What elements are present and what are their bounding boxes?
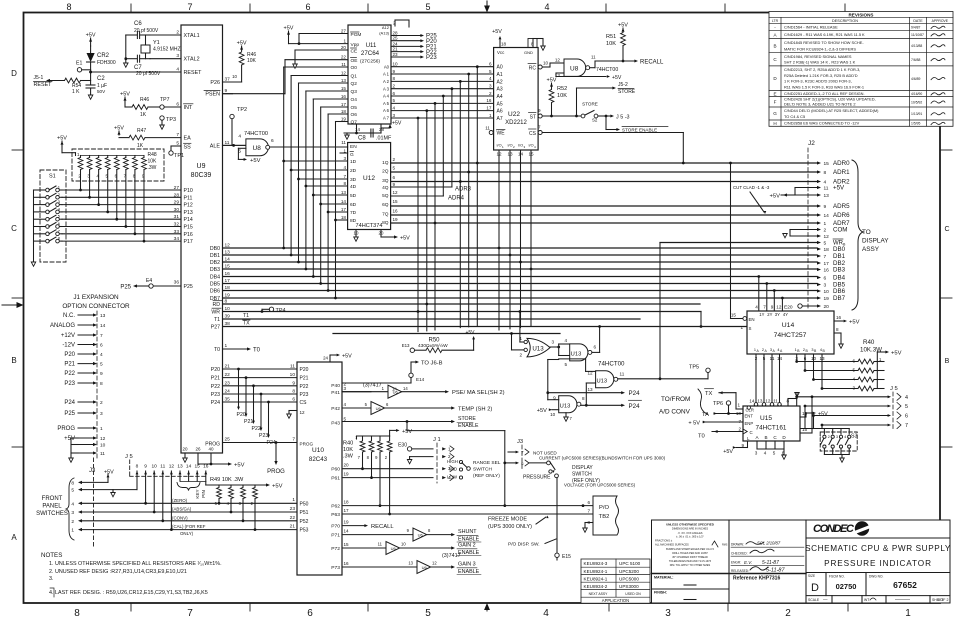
svg-text:ADR0: ADR0: [833, 160, 850, 167]
svg-text:DB3: DB3: [210, 267, 220, 273]
U9 pin T0: [223, 348, 248, 350]
svg-text:U14: U14: [782, 322, 795, 329]
svg-text:A0: A0: [497, 65, 503, 71]
svg-text:7: 7: [538, 125, 541, 130]
svg-text:2: 2: [828, 435, 830, 439]
svg-text:P26: P26: [210, 80, 220, 86]
wire pressure to E15: [556, 478, 558, 553]
svg-text:.3W: .3W: [148, 165, 157, 171]
svg-text:1: 1: [58, 185, 61, 190]
svg-text:10K: 10K: [148, 159, 158, 165]
svg-text:C2: C2: [97, 76, 105, 82]
svg-text:D: D: [11, 69, 17, 78]
S3 common to ground: [823, 448, 825, 454]
svg-text:TP7: TP7: [160, 97, 170, 103]
svg-text:7: 7: [905, 423, 908, 429]
svg-text:DISPLAY: DISPLAY: [572, 465, 593, 471]
svg-text:———: ———: [895, 597, 910, 603]
svg-text:+5V: +5V: [342, 354, 352, 360]
svg-text:A7: A7: [497, 116, 503, 122]
svg-text:PROG: PROG: [300, 442, 314, 447]
U14 B input verticals to R40 and S3: [796, 361, 798, 364]
svg-text:CS: CS: [300, 400, 308, 406]
svg-text:T0: T0: [253, 348, 261, 354]
U9 port1 pins P10-P17: [62, 189, 181, 191]
svg-text:14: 14: [518, 152, 524, 157]
svg-text:3: 3: [824, 283, 827, 289]
svg-text:4/16/90: 4/16/90: [911, 92, 922, 96]
svg-text:12: 12: [496, 152, 502, 157]
svg-text:J2: J2: [808, 140, 815, 147]
svg-text:16: 16: [344, 561, 350, 566]
svg-text:14: 14: [824, 213, 830, 219]
svg-text:P10: P10: [184, 188, 193, 194]
svg-text:N.C.: N.C.: [63, 313, 75, 319]
svg-text:Q1: Q1: [351, 74, 358, 80]
svg-text:Reference KHP7316: Reference KHP7316: [733, 576, 780, 582]
address wires U11 to U22: [391, 66, 494, 68]
svg-text:P23: P23: [64, 381, 75, 387]
ground below C2: [88, 95, 93, 99]
svg-text:2: 2: [393, 157, 396, 162]
svg-text:DATE: DATE: [913, 19, 923, 23]
svg-text:E4: E4: [146, 278, 152, 284]
svg-text:C: C: [944, 226, 949, 233]
svg-text:KEU8924-3: KEU8924-3: [584, 561, 608, 566]
svg-text:1Y: 1Y: [759, 312, 764, 317]
svg-text:9: 9: [538, 108, 541, 113]
svg-text:2: 2: [738, 426, 741, 431]
svg-text:DIM. TOL APPLY TO OTHER SIZES: DIM. TOL APPLY TO OTHER SIZES: [670, 564, 711, 567]
svg-text:T0: T0: [214, 347, 220, 353]
svg-text:ALL MACHINED SURFACES: ALL MACHINED SURFACES: [655, 543, 689, 547]
svg-text:C6: C6: [134, 21, 142, 27]
svg-text:3: 3: [836, 435, 838, 439]
svg-text:P21: P21: [300, 376, 309, 382]
svg-text:A 1: A 1: [383, 72, 390, 77]
svg-text:G: G: [773, 111, 777, 116]
svg-text:C/ND1629 - R11 WAS 6.19K, R21: C/ND1629 - R11 WAS 6.19K, R21 WAS 11.5 K: [784, 32, 865, 37]
U13c input 12 wire: [586, 370, 596, 372]
svg-text:RD: RD: [213, 302, 221, 308]
svg-text:6: 6: [852, 359, 855, 364]
svg-text:+5V: +5V: [250, 158, 261, 164]
svg-text:WR: WR: [211, 310, 220, 316]
svg-text:8: 8: [58, 236, 61, 241]
svg-text:J3: J3: [517, 439, 523, 445]
U8a output to U12 EN clock: [270, 146, 348, 148]
svg-text:ANALOG: ANALOG: [50, 323, 75, 329]
PROG arrow: [275, 443, 277, 462]
U15 pin 15 wire: [800, 432, 812, 434]
J5-1 RESET label: [46, 79, 50, 82]
svg-text:4/13/88: 4/13/88: [911, 44, 922, 48]
svg-text:E30: E30: [398, 443, 407, 449]
microcontroller U9 80C39: [181, 25, 223, 453]
svg-text:MID: MID: [449, 467, 457, 472]
svg-text:TP2: TP2: [237, 107, 247, 113]
svg-text:P12: P12: [184, 203, 193, 209]
svg-text:F: F: [774, 99, 777, 104]
zone ticks top: [130, 4, 132, 13]
svg-text:27: 27: [341, 29, 347, 34]
svg-text:J 5: J 5: [125, 454, 133, 460]
svg-text:ADR1: ADR1: [833, 169, 850, 176]
svg-text:11: 11: [100, 451, 105, 457]
address bus ADR0-ADR2 wires: [391, 162, 817, 164]
svg-text:PROG: PROG: [57, 426, 75, 432]
svg-text:XTAL1: XTAL1: [184, 33, 200, 39]
svg-text:1 K: 1 K: [72, 89, 80, 95]
address bus verticals to lower logic: [476, 67, 478, 326]
svg-text:BURRS AND SHARP EDGES PER UG.0: BURRS AND SHARP EDGES PER UG.0.5: [666, 548, 714, 551]
svg-text:APPLICATION: APPLICATION: [602, 598, 629, 603]
svg-text:XD2212: XD2212: [505, 120, 527, 126]
svg-text:15: 15: [528, 152, 534, 157]
svg-text:RC: RC: [529, 66, 537, 72]
svg-text:74HCT00: 74HCT00: [596, 67, 618, 73]
wire WR with jog to U15 S: [223, 311, 702, 313]
svg-text:DESCRIPTION: DESCRIPTION: [832, 19, 858, 23]
svg-text:+5V: +5V: [891, 351, 902, 357]
svg-text:12: 12: [555, 58, 561, 63]
svg-text:5: 5: [489, 69, 492, 74]
svg-text:18: 18: [225, 285, 231, 291]
svg-text:3.: 3.: [49, 576, 54, 582]
U14 EN pin: [731, 318, 744, 320]
svg-text:P52: P52: [300, 519, 309, 525]
svg-text:P/O: P/O: [599, 505, 609, 511]
svg-text:8: 8: [225, 299, 228, 305]
U14 gnd pin 8: [834, 332, 841, 334]
svg-text:S2: S2: [592, 118, 598, 123]
svg-text:CONDEC: CONDEC: [813, 523, 855, 535]
capacitor C2 1uF 50V: [86, 84, 95, 86]
svg-text:P14: P14: [184, 217, 193, 223]
svg-text:TX: TX: [243, 321, 250, 327]
svg-text:+5V: +5V: [618, 23, 628, 29]
svg-text:C/ND1564 - INITIAL RELEASE: C/ND1564 - INITIAL RELEASE: [784, 25, 838, 30]
svg-text:9: 9: [393, 69, 396, 74]
svg-text:4D: 4D: [350, 184, 357, 190]
svg-text:4: 4: [764, 451, 767, 456]
svg-text:PGM: PGM: [351, 32, 362, 38]
svg-text:+5V: +5V: [392, 121, 402, 127]
svg-text:35: 35: [225, 397, 231, 403]
svg-text:+ 5V: + 5V: [688, 421, 700, 427]
svg-text:TO C4 & C5: TO C4 & C5: [784, 114, 805, 119]
svg-text:16: 16: [486, 98, 492, 103]
svg-text:3: 3: [344, 386, 347, 391]
svg-text:+5V: +5V: [400, 236, 410, 242]
svg-text:1: 1: [519, 336, 522, 341]
svg-text:25: 25: [225, 437, 231, 443]
svg-text:8: 8: [393, 76, 396, 81]
wire PSEN to U11 OE: [223, 93, 286, 95]
U13c input 13 from P24bar: [586, 382, 595, 384]
svg-text:R25A Deleted 1.21K FOR-3, R25: R25A Deleted 1.21K FOR-3, R25 B ADD'D: [784, 73, 858, 78]
svg-text:COM: COM: [833, 227, 847, 234]
svg-text:TO J6-B: TO J6-B: [421, 361, 443, 367]
svg-text:14: 14: [100, 323, 106, 329]
svg-text:4: 4: [905, 395, 908, 401]
svg-text:SIZE: SIZE: [808, 574, 815, 578]
svg-text:R47: R47: [137, 128, 146, 134]
svg-text:430Ω±5%½W: 430Ω±5%½W: [418, 342, 448, 349]
svg-text:1: 1: [71, 528, 74, 534]
svg-text:10: 10: [290, 372, 296, 378]
svg-text:1/13/91: 1/13/91: [911, 112, 922, 116]
test point TP5: [707, 373, 709, 379]
svg-text:34: 34: [174, 236, 180, 242]
EPROM U11 27C64: [348, 25, 391, 124]
fold mark arrow top: [484, 6, 490, 13]
svg-text:APPROVE: APPROVE: [932, 19, 949, 23]
svg-text:3: 3: [489, 84, 492, 89]
svg-text:1: 1: [824, 221, 827, 227]
svg-text:16: 16: [393, 209, 399, 214]
zone ticks bottom: [130, 603, 132, 611]
svg-text:B: B: [945, 358, 950, 365]
svg-text:30: 30: [174, 207, 180, 213]
svg-text:P23: P23: [426, 55, 437, 61]
svg-text:15: 15: [802, 427, 808, 432]
svg-text:5: 5: [344, 417, 347, 422]
svg-text:21: 21: [290, 524, 296, 530]
svg-text:10K: 10K: [557, 93, 567, 99]
svg-text:1K: 1K: [137, 143, 144, 149]
svg-text:+5V: +5V: [833, 185, 845, 192]
svg-text:29: 29: [174, 200, 180, 206]
svg-text:17: 17: [486, 105, 492, 110]
J5 pin drops to switch lines: [136, 471, 138, 490]
svg-text:O5: O5: [351, 105, 358, 111]
svg-text:4: 4: [543, 608, 549, 619]
switch line CONV: [81, 520, 297, 522]
svg-text:P11: P11: [184, 195, 193, 201]
svg-text:+5V: +5V: [492, 29, 502, 35]
svg-text:7: 7: [187, 2, 192, 12]
svg-text:5: 5: [393, 166, 396, 171]
svg-text:P42: P42: [331, 406, 340, 412]
svg-text:2D: 2D: [350, 168, 357, 174]
DIP switch S1: [40, 170, 66, 262]
test point TP1: [170, 146, 172, 151]
svg-text:15: 15: [824, 161, 830, 167]
svg-text:FRACTIONS ±: FRACTIONS ±: [655, 539, 673, 543]
svg-text:TO: TO: [862, 229, 871, 236]
svg-text:U8: U8: [253, 145, 262, 152]
front panel wire pin8 to +5V: [81, 481, 108, 483]
svg-text:2Q: 2Q: [382, 169, 389, 175]
svg-text:SHT 2 R38(-1) WAS 14 K , R23 W: SHT 2 R38(-1) WAS 14 K , R23 WAS 1 K: [784, 60, 856, 65]
svg-text:5-11-87: 5-11-87: [766, 568, 785, 574]
svg-text:.X .XX .XXX ANGL: .X .XX .XXX ANGLES: [677, 531, 702, 535]
svg-text:P40: P40: [331, 383, 340, 389]
svg-text:14: 14: [344, 529, 350, 534]
svg-text:6: 6: [905, 414, 908, 420]
svg-text:+5V: +5V: [284, 26, 294, 32]
U9 right side pins: [223, 81, 242, 83]
svg-text:3: 3: [58, 199, 61, 204]
svg-text:5: 5: [71, 488, 74, 494]
svg-text:3: 3: [755, 451, 758, 456]
svg-text:12: 12: [776, 305, 782, 310]
svg-text:9/4/87: 9/4/87: [911, 26, 921, 30]
svg-text:10: 10: [393, 62, 399, 67]
svg-text:P22: P22: [211, 384, 220, 390]
svg-text:1: 1: [292, 497, 295, 503]
svg-text:8: 8: [100, 381, 103, 387]
svg-text:PIN: PIN: [201, 490, 206, 498]
svg-text:5: 5: [852, 368, 855, 373]
svg-text:Q3: Q3: [351, 89, 358, 95]
ground for crystal caps: [125, 35, 127, 63]
resistor network R48 10K .3W: [61, 141, 63, 146]
svg-text:S3: S3: [851, 434, 857, 440]
svg-text:8: 8: [343, 181, 346, 186]
svg-text:UNLESS OTHERWISE SPECIFIED: UNLESS OTHERWISE SPECIFIED: [666, 523, 715, 527]
svg-text:8: 8: [428, 528, 431, 533]
switch line CAL: [81, 529, 297, 531]
svg-text:12: 12: [824, 234, 830, 240]
svg-text:ONLY): ONLY): [180, 531, 194, 536]
svg-text:TA: TA: [702, 412, 709, 418]
svg-text:6: 6: [393, 91, 396, 96]
ground for J1 pins 10 11: [70, 438, 72, 453]
svg-text:P21: P21: [244, 419, 253, 425]
svg-text:A2: A2: [497, 79, 503, 85]
svg-text:3D: 3D: [350, 177, 357, 183]
svg-text:8: 8: [292, 389, 295, 395]
svg-text:+5V: +5V: [57, 136, 67, 142]
svg-text:CS: CS: [529, 131, 537, 137]
svg-text:U6: U6: [422, 565, 428, 570]
multiplexer U14 74HCT257: [747, 311, 834, 354]
svg-text:15: 15: [731, 313, 737, 318]
svg-text:6: 6: [594, 345, 597, 350]
svg-text:18: 18: [341, 215, 347, 220]
svg-text:3: 3: [552, 340, 555, 345]
svg-text:R48: R48: [148, 152, 157, 158]
svg-text:KEU8924-1: KEU8924-1: [584, 577, 608, 582]
svg-text:J 1: J 1: [433, 437, 441, 443]
svg-text:28: 28: [174, 192, 180, 198]
svg-text:22: 22: [341, 55, 347, 60]
svg-text:U6: U6: [391, 546, 397, 551]
svg-text:A 3: A 3: [383, 86, 390, 91]
svg-text:RESET: RESET: [184, 70, 203, 76]
svg-text:23: 23: [290, 506, 296, 512]
U13b output up to TX bus: [592, 351, 600, 353]
svg-text:14: 14: [749, 399, 755, 404]
svg-text:6: 6: [521, 461, 524, 466]
svg-text:PRESSURE INDICATOR: PRESSURE INDICATOR: [824, 559, 932, 568]
svg-text:13: 13: [177, 464, 183, 470]
svg-text:VOLTAGE (FOR UPC5000 SERIES): VOLTAGE (FOR UPC5000 SERIES): [564, 483, 636, 488]
svg-text:3Q: 3Q: [382, 178, 389, 184]
title block: [652, 520, 951, 603]
svg-text:6: 6: [305, 2, 310, 12]
svg-text:SCHEMATIC CPU & PWR SUPPLY: SCHEMATIC CPU & PWR SUPPLY: [805, 544, 951, 553]
svg-text:3: 3: [71, 510, 74, 516]
svg-text:5: 5: [425, 608, 431, 619]
svg-text:13: 13: [507, 152, 513, 157]
svg-text:EN: EN: [749, 317, 755, 322]
U14 A input verticals to U15: [755, 362, 757, 403]
crystal Y1 4.9152MHZ: [141, 45, 150, 53]
svg-text:5: 5: [58, 214, 61, 219]
svg-text:STORE: STORE: [458, 416, 476, 422]
svg-text:E14: E14: [416, 377, 425, 382]
svg-text:7: 7: [521, 450, 524, 455]
svg-text:P50: P50: [300, 501, 309, 507]
svg-text:14: 14: [225, 257, 231, 263]
wire store-enable branch to J3: [406, 422, 408, 431]
svg-text:9: 9: [771, 305, 774, 310]
svg-text:GAIN 2: GAIN 2: [458, 543, 476, 549]
svg-text:2: 2: [785, 608, 791, 619]
svg-text:KEY: KEY: [195, 489, 200, 498]
svg-text:1: 1: [382, 386, 385, 391]
svg-text:SCALE: SCALE: [808, 598, 820, 602]
svg-text:1: 1: [489, 113, 492, 118]
svg-text:3: 3: [343, 156, 346, 161]
svg-text:U11: U11: [366, 43, 377, 49]
svg-text:U9: U9: [197, 163, 206, 170]
svg-text:14: 14: [186, 464, 192, 470]
svg-text:39: 39: [225, 314, 231, 320]
resistor R51 10K: [622, 28, 624, 32]
svg-text:TB2: TB2: [599, 514, 610, 520]
svg-text:RECALL: RECALL: [371, 524, 394, 530]
svg-text:1 OF 2: 1 OF 2: [938, 598, 949, 602]
svg-text:5: 5: [773, 451, 776, 456]
buffer U6e 7417 GAIN3: [342, 566, 417, 568]
svg-text:(CONV): (CONV): [172, 515, 188, 520]
svg-text:1. UNLESS OTHERWISE SPECIFIED: 1. UNLESS OTHERWISE SPECIFIED ALL RESIST…: [49, 561, 222, 567]
svg-text:SWITCHES: SWITCHES: [36, 511, 68, 517]
svg-text:10K: 10K: [606, 41, 616, 47]
svg-text:26: 26: [195, 447, 201, 452]
svg-text:SS: SS: [184, 145, 192, 151]
svg-text:13: 13: [341, 78, 347, 83]
svg-text:+5V: +5V: [64, 436, 75, 442]
svg-text:14: 14: [341, 199, 347, 204]
svg-text:11/10/87: 11/10/87: [911, 33, 924, 37]
svg-text:31: 31: [174, 214, 180, 220]
svg-text:5: 5: [100, 362, 103, 368]
svg-text:2: 2: [100, 400, 103, 406]
J5-3 arrow: [606, 115, 610, 117]
svg-text:6Q: 6Q: [382, 202, 389, 208]
svg-text:16: 16: [836, 315, 842, 320]
svg-text:27C64: 27C64: [361, 50, 380, 57]
svg-text:CURRENT (uPC5000 SERIES)(BLIND: CURRENT (uPC5000 SERIES)(BLINDSWITCH FOR…: [539, 456, 666, 461]
svg-text:13: 13: [408, 561, 413, 566]
svg-text:1: 1: [905, 608, 911, 619]
svg-text:1A: 1A: [392, 387, 397, 392]
P2x drop arrows to A/D: [238, 369, 240, 407]
svg-text:R40: R40: [343, 441, 353, 447]
svg-text:T1: T1: [214, 317, 220, 323]
svg-text:ALE: ALE: [210, 143, 221, 149]
svg-text:O0: O0: [351, 65, 358, 71]
svg-text:O4: O4: [351, 97, 358, 103]
svg-text:P20: P20: [211, 367, 220, 373]
svg-text:74HCT00: 74HCT00: [244, 131, 268, 137]
svg-text:P41: P41: [331, 390, 340, 396]
